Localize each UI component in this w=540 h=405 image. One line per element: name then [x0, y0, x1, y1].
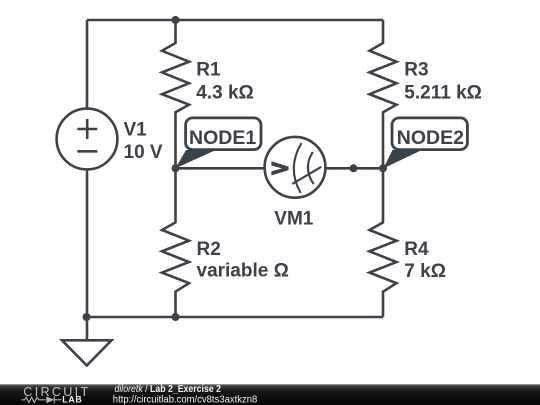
- svg-text:5.211 kΩ: 5.211 kΩ: [404, 83, 482, 104]
- svg-text:R1: R1: [196, 60, 221, 81]
- svg-text:VM1: VM1: [274, 209, 314, 230]
- svg-text:7 kΩ: 7 kΩ: [404, 261, 446, 282]
- svg-text:10 V: 10 V: [124, 142, 163, 163]
- svg-text:R4: R4: [404, 239, 429, 260]
- svg-text:V1: V1: [124, 120, 148, 141]
- svg-text:http://circuitlab.com/cv8ts3ax: http://circuitlab.com/cv8ts3axtkzn8: [113, 393, 258, 405]
- svg-text:NODE1: NODE1: [189, 127, 256, 149]
- svg-text:R2: R2: [197, 239, 221, 260]
- svg-text:LAB: LAB: [62, 395, 82, 405]
- svg-text:4.3 kΩ: 4.3 kΩ: [196, 83, 254, 104]
- svg-text:R3: R3: [404, 60, 428, 81]
- svg-text:variable Ω: variable Ω: [197, 260, 289, 281]
- svg-text:NODE2: NODE2: [397, 127, 464, 149]
